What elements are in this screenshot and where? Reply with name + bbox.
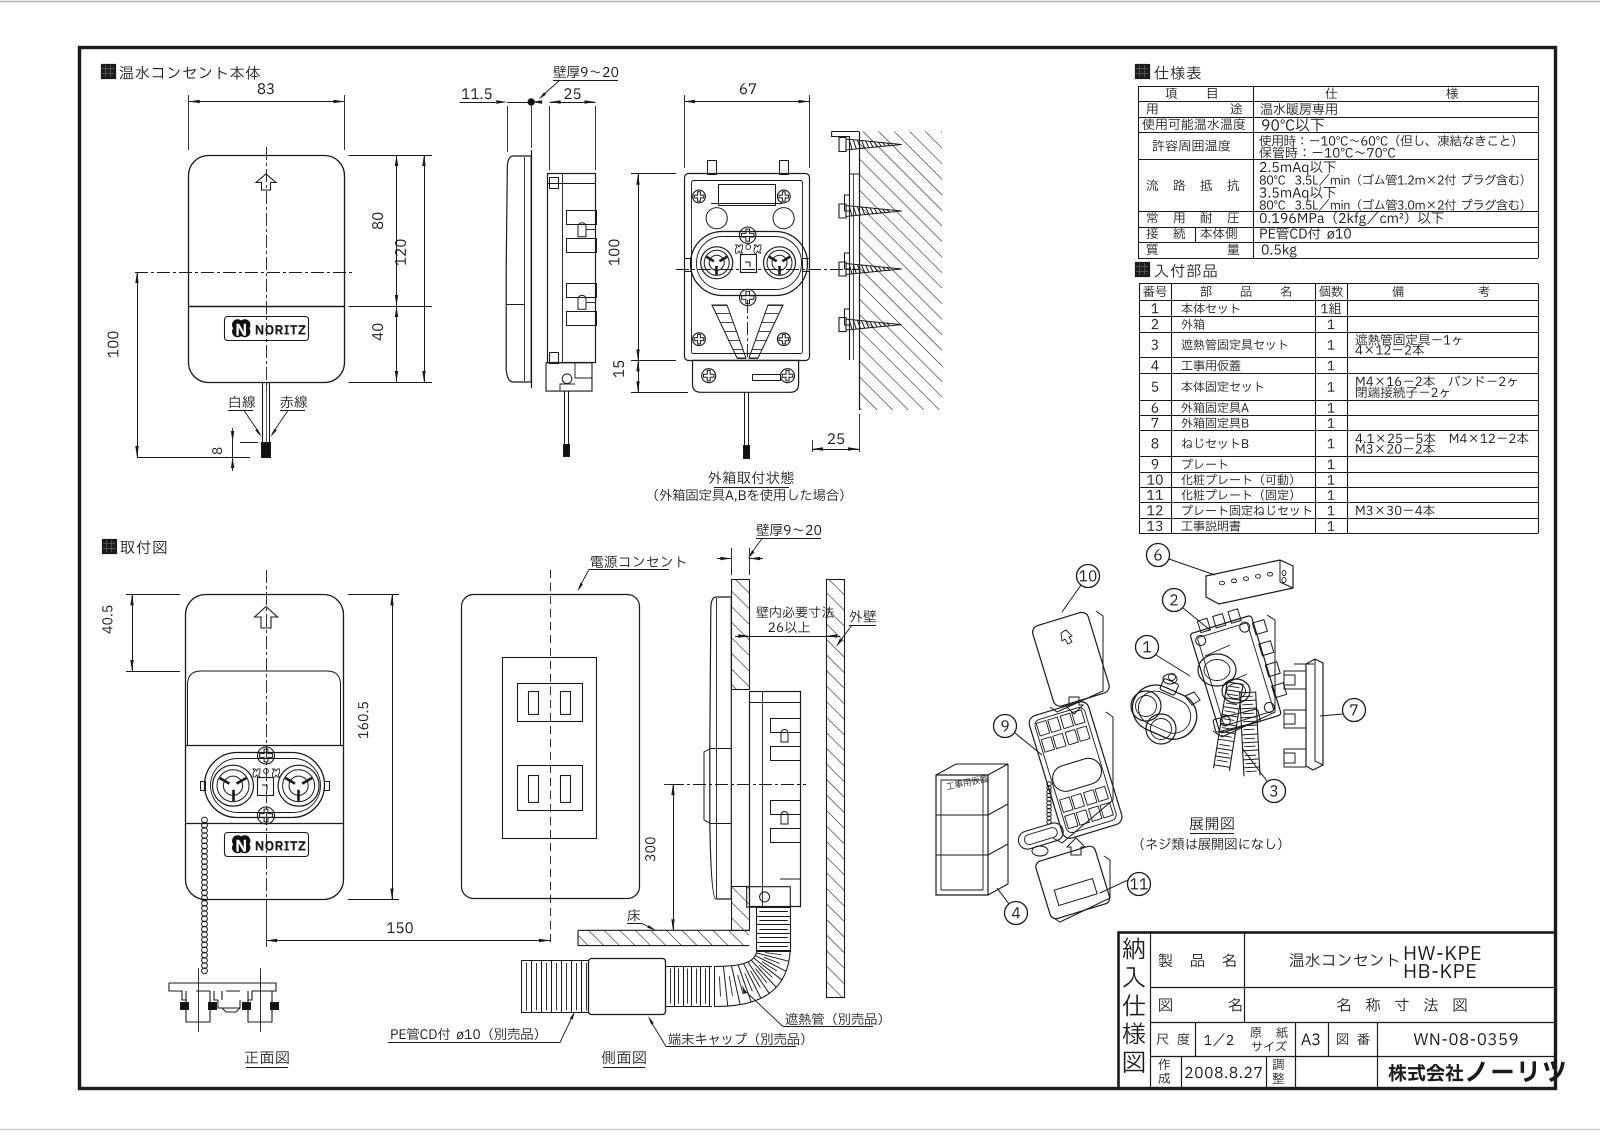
parts table row 1 本体セット — [1151, 303, 1158, 313]
mounted view: two big holes — [706, 208, 727, 229]
parts table row 2 外箱 — [1152, 319, 1159, 329]
side view: main box behind wall — [548, 174, 596, 363]
label 外壁 — [850, 610, 876, 622]
title block 納入仕様図 vertical — [1123, 937, 1144, 959]
parts table header — [1143, 286, 1166, 297]
parts table row 11 化粧プレート（固定） — [1147, 490, 1162, 500]
parts table row 4 工事用仮蓋 — [1151, 360, 1158, 370]
install front: bottom screw — [258, 807, 275, 824]
install front: side notches — [201, 782, 206, 791]
parts table row 5 本体固定セット — [1152, 382, 1158, 392]
dimension 120 — [424, 155, 426, 382]
exploded part 10: movable cover plate — [1031, 611, 1111, 708]
dimension 25 (side view) — [564, 88, 580, 99]
mounted view: bottom mounting plate — [693, 360, 799, 392]
title block scale row — [1157, 1034, 1169, 1045]
front view: center lines — [266, 147, 268, 390]
install front: body outline — [186, 595, 344, 900]
parts table grid — [1139, 283, 1538, 285]
install front: NORITZ logo — [225, 833, 309, 857]
dimension 11.5 — [462, 88, 492, 99]
title block outer border — [1119, 933, 1556, 1089]
section marker + title 仕様表 — [1136, 65, 1150, 79]
section marker + title 入付部品 — [1136, 263, 1150, 277]
exploded arrow down (10 to 9) — [1065, 697, 1083, 714]
install front: top screw — [258, 747, 275, 764]
spec table row 流路抵抗 — [1147, 180, 1158, 192]
spec table grid — [1138, 86, 1538, 88]
mounted view: side notches — [685, 259, 692, 272]
title block grid — [1150, 932, 1152, 1088]
install front: chain end plug assembly — [169, 983, 276, 1000]
label 正面図 — [245, 1051, 289, 1064]
outlet plate: inner rect — [503, 658, 597, 839]
spec table row 用途 — [1147, 103, 1158, 114]
label 外箱取付状態 — [708, 471, 793, 484]
side section: outer wall strip — [826, 579, 844, 997]
side section: inner wall lower strip — [731, 887, 749, 931]
exploded part 11: fixed cover plate — [1034, 845, 1111, 921]
parts table row 7 外箱固定具B — [1152, 418, 1158, 428]
exploded part 9: plate body — [1027, 700, 1124, 841]
exploded part 3: heat shield tubes — [1213, 681, 1243, 770]
mounted view: valve oval assembly — [691, 232, 808, 296]
side section: PE pipe corrugated — [521, 960, 589, 962]
dimension 150 — [266, 905, 268, 947]
install front: left valve — [213, 765, 254, 806]
side view: face plate (lens profile) — [506, 156, 531, 382]
install front: clover marks + circle — [253, 769, 260, 777]
mounted view: top screw — [740, 227, 756, 243]
exploded part 9: grid slots lower — [1060, 797, 1073, 812]
side section: end cap box — [589, 959, 666, 1015]
exploded part 1: faucet unit — [1125, 678, 1204, 747]
spec table row 使用可能温水温度 — [1142, 118, 1245, 130]
label 遮熱管（別売品） — [785, 1013, 881, 1025]
side section: floor — [578, 930, 749, 945]
side section: center dash line — [671, 784, 806, 786]
side section: vertical corrugated tube — [756, 907, 758, 952]
label 電源コンセント — [591, 556, 686, 568]
parts table row 3 遮熱管固定具セット — [1151, 340, 1158, 350]
mounted view: V fan tubes below valves — [712, 305, 746, 358]
side section: horizontal corrugated tube (遮熱管) — [666, 966, 712, 968]
label 白線 white wire — [230, 396, 255, 408]
mounted view: center square — [741, 255, 757, 273]
spec table row 許容周囲温度 — [1153, 140, 1231, 152]
spec table row 常用耐圧 — [1147, 212, 1158, 223]
dimension 80 — [396, 155, 398, 306]
parts table row 10 化粧プレート（可動） — [1147, 475, 1162, 485]
label 展開図 — [1190, 817, 1234, 830]
install front: right valve — [278, 765, 319, 806]
parts table row 13 工事説明書 — [1147, 521, 1162, 531]
dimension 83 — [188, 95, 190, 150]
title block 製品名 row — [1159, 953, 1173, 967]
mounted view: unit outer box — [685, 174, 810, 361]
mounted view: bracket B (vertical strip) — [849, 174, 851, 360]
install front: valve band — [185, 745, 343, 747]
dimension 8 (wire tip) — [232, 442, 234, 457]
side view: wires below — [564, 391, 566, 444]
install front: center dash line — [266, 570, 268, 905]
title block company 株式会社ノーリツ — [1388, 1064, 1463, 1082]
label 壁内必要寸法 26以上 — [756, 606, 833, 618]
front view: divider line — [189, 306, 345, 308]
exploded part 7: bracket B rail — [1306, 659, 1323, 770]
dimension 壁厚9～20 (bottom) — [756, 524, 821, 536]
front view: body outline — [189, 156, 345, 383]
wall reference dot — [528, 99, 534, 105]
side view: lower terminal bracket — [546, 363, 592, 391]
dimension 25 (wall depth) — [859, 414, 861, 452]
dimension 160.5 — [348, 594, 399, 596]
parts table row 9 プレート — [1152, 459, 1159, 469]
mounted view: small clover marks — [736, 245, 743, 253]
dimension 300 — [664, 784, 671, 786]
exploded part 9: oval cutout — [1049, 755, 1104, 794]
exploded part 4: temporary cover box — [936, 775, 988, 895]
dimension 100 (left) — [135, 272, 142, 274]
mounted view: right valve — [764, 247, 796, 279]
parts table row 8 ねじセットB — [1152, 438, 1159, 448]
install front: pull chain — [202, 817, 208, 823]
mounted view: wire below — [744, 392, 746, 445]
exploded part 9: drain plug with chain — [1047, 782, 1051, 786]
mounted view: center dash line — [676, 269, 860, 271]
mounted view: bottom screw — [740, 289, 756, 305]
exploded part 6: bracket A strip — [1206, 560, 1293, 604]
dimension 15 — [631, 392, 688, 394]
install front: valve oval — [205, 753, 325, 818]
side section: box fins right — [771, 719, 801, 733]
front view: lead wires — [262, 382, 264, 442]
install front: movable cover outline — [188, 671, 341, 746]
outlet plate: lower socket — [518, 766, 583, 811]
dimension 40 — [396, 306, 398, 382]
dimension 100 (mounted) — [631, 173, 676, 175]
front view: NORITZ logo — [225, 317, 309, 341]
mounted view: top hanger pins — [708, 161, 717, 175]
side section: cover plate profile — [710, 597, 732, 899]
label PE管CD付 ø10（別売品） — [391, 1028, 538, 1040]
exploded part 2: top fins — [1197, 618, 1210, 632]
mounted view: top slot detail — [719, 185, 776, 206]
section marker + title 温水コンセント本体 — [102, 65, 116, 79]
dimension 67 — [684, 95, 686, 168]
front view: up arrow mark — [256, 174, 276, 190]
section marker + title 取付図 — [103, 540, 117, 554]
title block 図名 row — [1159, 998, 1172, 1011]
spec table header — [1165, 88, 1176, 99]
label 側面図 — [602, 1051, 646, 1064]
side section: elbow fan — [714, 950, 790, 1007]
label 端末キャップ（別売品） — [668, 1033, 804, 1045]
install front: center square — [258, 778, 274, 796]
side section: lower clamp bracket — [747, 887, 791, 908]
label 壁厚9～20 (top) — [553, 66, 618, 78]
outlet plate: outline — [462, 595, 640, 899]
mounted view: corner screws — [693, 190, 706, 203]
parts table row 6 外箱固定具A — [1152, 403, 1159, 413]
exploded part 9: grid slots upper — [1036, 721, 1049, 736]
exploded part 2: ports — [1198, 654, 1236, 686]
outlet plate: upper socket — [518, 684, 583, 722]
spec table row 接続 — [1146, 228, 1157, 240]
exploded circled numbers with leaders — [1077, 565, 1100, 588]
mounted view: bracket A (top) — [832, 132, 859, 175]
label 床 floor — [628, 909, 640, 921]
outlet plate: center dash line — [550, 570, 552, 947]
title block date row — [1158, 1058, 1170, 1069]
side section: main box behind wall — [750, 692, 801, 907]
mounted view: left valve — [701, 247, 733, 279]
mounted view: fixing screws into wall — [839, 138, 846, 152]
spec table row 質量 — [1146, 244, 1157, 256]
dimension 80/120/40 extension lines — [349, 155, 433, 157]
exploded part 2: outer box — [1190, 615, 1282, 733]
side section: inner wall upper strip — [731, 579, 749, 689]
side view: wall plane line — [531, 150, 533, 388]
label 赤線 red wire — [280, 396, 307, 408]
front view: wire stripped tip (black) — [262, 443, 271, 458]
exploded arrow up (11 to 9) — [1067, 838, 1085, 855]
parts table row 12 プレート固定ねじセット — [1147, 505, 1162, 515]
dimension 40.5 — [126, 594, 180, 596]
install front: up arrow mark — [255, 607, 278, 629]
